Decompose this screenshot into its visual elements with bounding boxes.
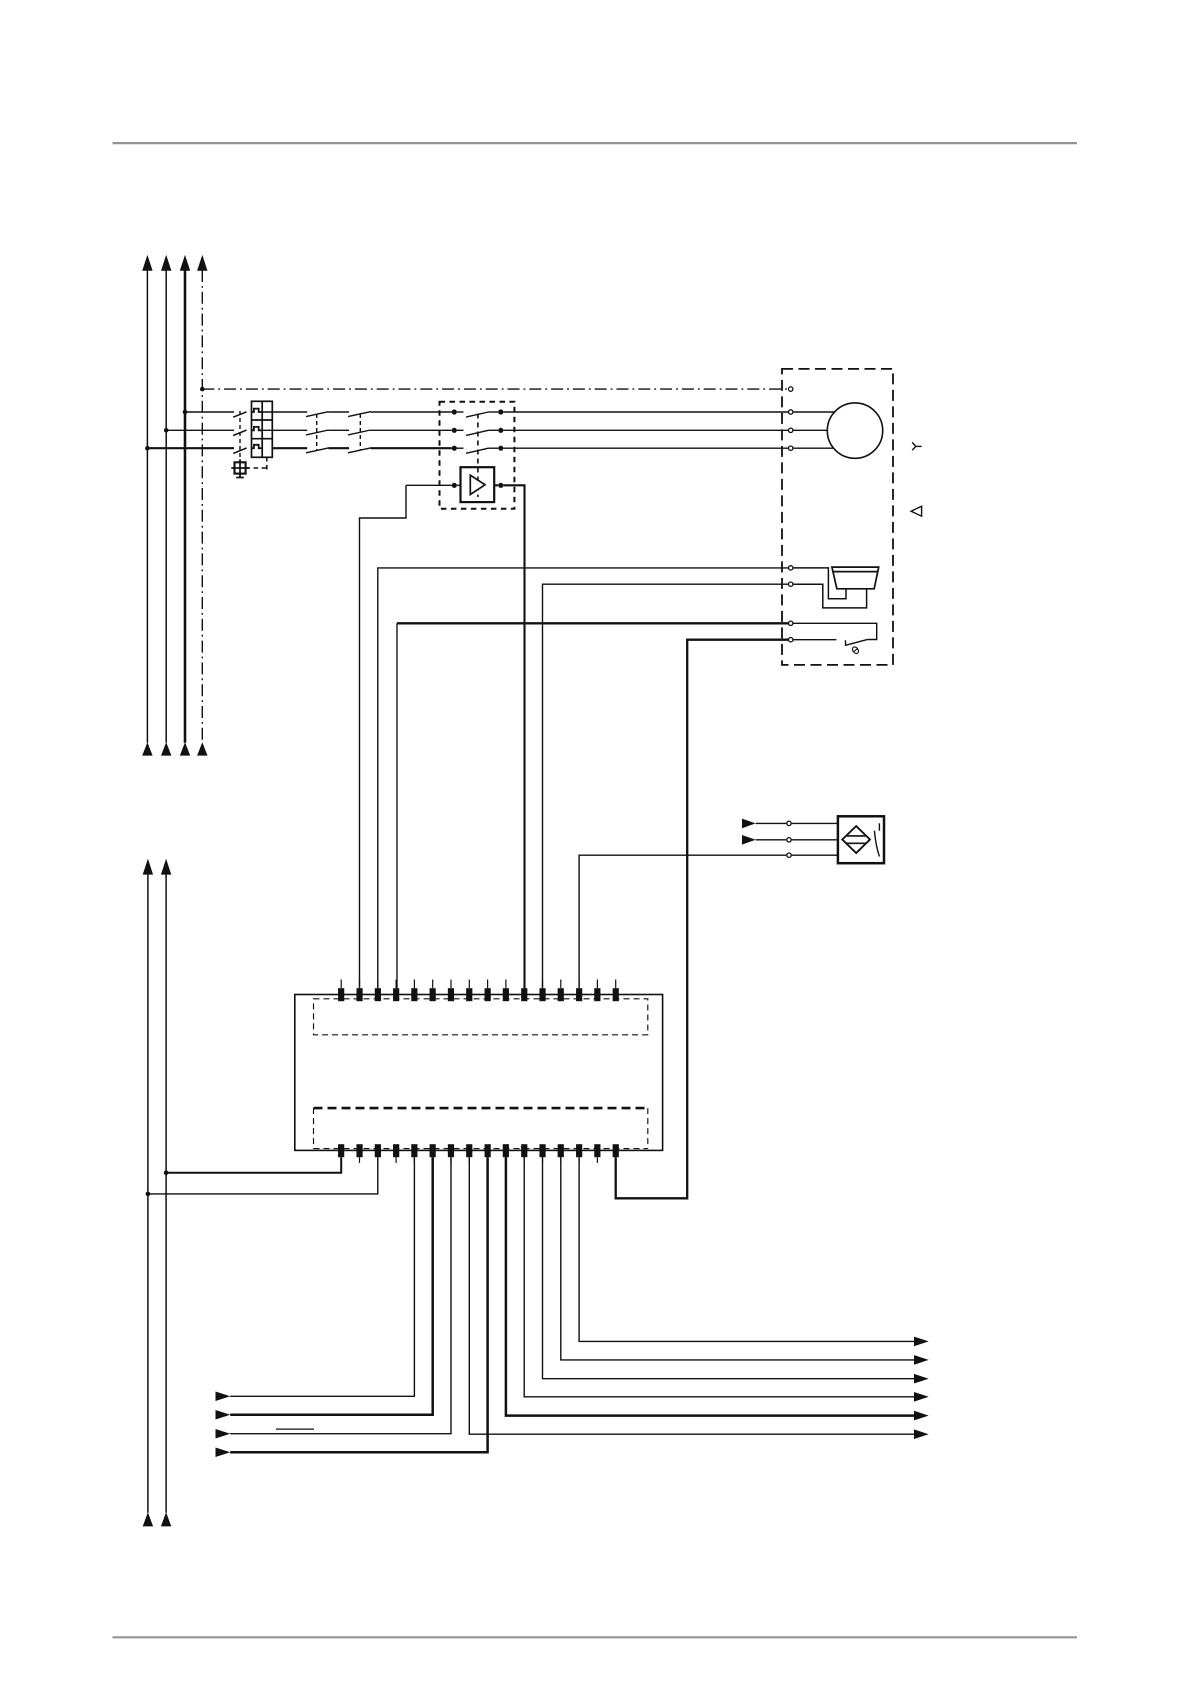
brake lead 1 (793, 568, 846, 599)
wire phase3 to motor terminal (503, 447, 788, 449)
node control rail 2 junction (164, 1170, 169, 1175)
thermal overload element pole 1 (252, 409, 263, 412)
encoder terminal 1 (787, 821, 791, 825)
wire phase1 to breaker (185, 411, 234, 413)
delta symbol (911, 506, 922, 516)
terminal thermo 1 (789, 621, 793, 625)
PLC bottom pin 13 (558, 1144, 564, 1163)
wire PLC pin B11 to right output 4 (524, 1157, 914, 1397)
wire PLC pin B14 to right output 1 (579, 1157, 914, 1341)
PLC top pin 9 (485, 980, 491, 1002)
PLC top pin 10 (503, 980, 509, 1002)
supply rail L1 (142, 255, 152, 756)
semiconductor module U1 triangle (470, 475, 485, 494)
wire phase1 to motor terminal (503, 411, 788, 413)
bypass linkage (477, 414, 479, 498)
node L1 junction (183, 410, 188, 415)
PLC top pin 3 (375, 980, 381, 1002)
PLC bottom pin 3 (375, 1144, 381, 1163)
bypass contact pole 2 (452, 428, 504, 436)
PLC bottom pin 15 (594, 1144, 600, 1163)
motor M1 (827, 403, 882, 458)
node U1 left (452, 483, 457, 488)
PLC bottom pin 2 (356, 1144, 362, 1163)
wire PLC pin B3 to control rail 1 (148, 1157, 378, 1194)
wire phase2 to breaker (166, 429, 234, 431)
motor M1 leads (793, 412, 834, 448)
wire phase1 K1 to K2 (329, 411, 350, 413)
input arrow 4 (216, 1447, 231, 1457)
star symbol (912, 442, 921, 450)
wire PLC pin B8 to right output 6 (469, 1157, 914, 1434)
output arrow 4 (914, 1392, 929, 1402)
supply rail PE (dash-dot) (197, 255, 207, 756)
contactor K1 contacts (306, 412, 329, 453)
PLC top pin 15 (594, 980, 600, 1002)
node control rail 1 junction (146, 1192, 151, 1197)
footer rule (113, 1636, 1078, 1638)
PLC top pin 12 (539, 980, 545, 1002)
contactor K1 linkage (316, 414, 318, 451)
wire phase3 breaker to contactor (bold) (272, 447, 307, 449)
wire phase3 to breaker (bold) (147, 447, 234, 449)
PLC bottom pin 1 (338, 1144, 344, 1163)
wire U1 right lead to PLC pin T11 (bold) (494, 485, 524, 988)
control rail 1 (143, 859, 153, 1527)
input arrow 1 (216, 1392, 231, 1402)
reference tick line (276, 1428, 314, 1430)
brake lead 2 (793, 584, 866, 608)
output arrow 6 (914, 1429, 929, 1439)
circuit breaker Q1 switch blades (233, 412, 246, 454)
supply rail L2 (161, 255, 171, 756)
thermal contact F1 (793, 623, 876, 646)
PLC bottom pin 10 (503, 1144, 509, 1163)
wire PLC pin B7 to left input 3 (230, 1157, 451, 1434)
PLC top pin 6 (430, 980, 436, 1002)
motor unit dashed enclosure (782, 369, 893, 665)
PLC bottom pin 16 (613, 1144, 619, 1163)
wire brake terminal 2 to PLC pin T12 (543, 584, 789, 988)
input arrow 3 (216, 1429, 231, 1439)
PLC top pin 7 (448, 980, 454, 1002)
encoder wire 1 (756, 822, 838, 824)
node PE junction (200, 387, 205, 392)
bypass contact pole 1 (452, 409, 504, 417)
PLC output terminal strip (dashed) (314, 1108, 648, 1149)
supply rail L3 (bold) (180, 255, 190, 756)
wire PLC pin B10 to right output 5 (506, 1157, 914, 1415)
PLC top pin 5 (411, 980, 417, 1002)
terminal brake + (789, 566, 793, 570)
wire phase2 K1 to K2 (329, 429, 350, 431)
terminal PE (789, 387, 793, 391)
terminal thermo 2 (789, 638, 793, 642)
brake coil Y1 (832, 567, 879, 589)
PLC bottom pin 8 (466, 1144, 472, 1163)
node L2 junction (164, 428, 169, 433)
output arrow 1 (914, 1337, 929, 1347)
output arrow 5 (914, 1411, 929, 1421)
output arrow 2 (914, 1355, 929, 1365)
terminal V (789, 428, 793, 432)
wire brake terminal 1 to PLC pin T3 (378, 568, 788, 988)
PLC bottom pin 6 (430, 1144, 436, 1163)
terminal U (789, 410, 793, 414)
PLC module A1 box (295, 995, 663, 1151)
PLC top pin 4 (393, 980, 399, 1002)
wire thermo 2 to PLC pin B16 (616, 640, 788, 1199)
breaker trip linkage (246, 456, 267, 470)
control rail 2 (161, 859, 171, 1527)
encoder input arrow 2 (742, 835, 756, 845)
circuit breaker Q1 mechanical linkage (239, 411, 241, 462)
wire phase1 K2 to soft starter (371, 411, 452, 413)
contactor K2 contacts (348, 412, 371, 453)
PLC bottom pin 9 (485, 1144, 491, 1163)
PLC top pin 2 (356, 980, 362, 1002)
PLC bottom pin 5 (411, 1144, 417, 1163)
proximity sensor B1 box (838, 816, 884, 863)
wire phase3 K1 to K2 (bold) (329, 447, 350, 449)
bypass contact pole 3 (452, 446, 504, 454)
breaker trip unit square (231, 459, 248, 477)
wire PLC pin B9 to left input 4 (230, 1157, 487, 1452)
wire phase3 K2 to soft starter (bold) (371, 447, 452, 449)
wire phase2 breaker to contactor (262, 429, 307, 431)
encoder input arrow 1 (742, 819, 756, 829)
thermal overload element pole 3 (252, 445, 263, 448)
node U1 right (498, 483, 503, 488)
PLC bottom pin 7 (448, 1144, 454, 1163)
PLC top pin 8 (466, 980, 472, 1002)
PLC top pin 16 (613, 980, 619, 1002)
PLC input terminal strip (dashed) (314, 999, 648, 1035)
wire U1 control staircase to PLC pin T2 (360, 485, 407, 988)
circuit breaker Q1 thermal element box (252, 401, 273, 457)
encoder wire 3 to PLC pin T14 (579, 855, 838, 988)
wire PLC pin B13 to right output 2 (561, 1157, 914, 1360)
wire thermo 1 to PLC pin T4 (397, 623, 788, 988)
PLC top pin 1 (338, 980, 344, 1002)
PLC bottom pin 4 (393, 1144, 399, 1163)
terminal brake - (789, 582, 793, 586)
terminal W (789, 446, 793, 450)
wire PLC pin B12 to right output 3 (543, 1157, 915, 1379)
encoder terminal 2 (787, 838, 791, 842)
thermal overload element pole 2 (252, 427, 263, 430)
semiconductor module U1 (461, 467, 495, 502)
soft starter dashed enclosure (440, 402, 515, 509)
PLC bottom pin 12 (539, 1144, 545, 1163)
encoder terminal 3 (787, 853, 791, 857)
contactor K2 linkage (359, 414, 361, 451)
wire U1 left lead (406, 484, 461, 486)
PLC top pin 14 (576, 980, 582, 1002)
wire PLC pin B5 to left input 1 (230, 1157, 414, 1396)
wire PLC pin B1 to control rail 2 (166, 1157, 341, 1173)
PLC bottom pin 11 (521, 1144, 527, 1163)
wire PLC pin B6 to left input 2 (230, 1157, 433, 1415)
wire phase2 K2 to soft starter (371, 429, 452, 431)
PLC top pin 13 (558, 980, 564, 1002)
input arrow 2 (216, 1410, 231, 1420)
wire phase1 breaker to contactor (262, 411, 307, 413)
PLC bottom pin 14 (576, 1144, 582, 1163)
encoder wire 2 (756, 839, 838, 841)
thermal contact theta label (851, 646, 860, 655)
PE distribution wire (dash-dot) (202, 388, 788, 390)
PLC top pin 11 (521, 980, 527, 1002)
output arrow 3 (914, 1374, 929, 1384)
node L3 junction (145, 446, 150, 451)
header rule (113, 142, 1078, 144)
wire phase2 to motor terminal (503, 429, 788, 431)
